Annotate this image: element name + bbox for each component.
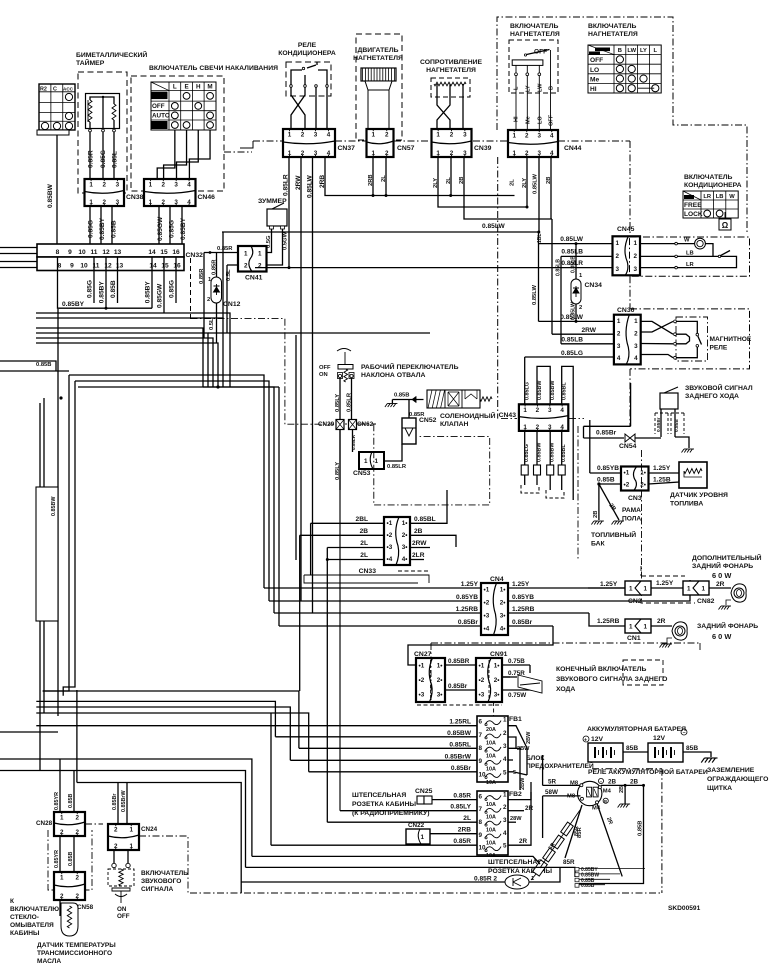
svg-text:2•: 2• — [437, 677, 443, 684]
svg-text:ДАТЧИК ТЕМПЕРАТУРЫ: ДАТЧИК ТЕМПЕРАТУРЫ — [37, 942, 116, 949]
solenoid valve symbol — [427, 390, 480, 408]
svg-text:КОНЕЧНЫЙ ВКЛЮЧАТЕЛЬ: КОНЕЧНЫЙ ВКЛЮЧАТЕЛЬ — [556, 664, 647, 673]
wires out of CN33 — [410, 490, 447, 523]
wires out of battery relay right — [601, 784, 644, 786]
svg-text:2•: 2• — [500, 600, 506, 607]
wire 2R to rear lamp — [651, 625, 672, 627]
wire 0.85LW long — [222, 231, 539, 233]
svg-text:•2: •2 — [479, 677, 485, 684]
svg-text:5: 5 — [513, 770, 516, 776]
svg-text:1•: 1• — [437, 662, 443, 669]
svg-text:•1: •1 — [624, 470, 630, 477]
wires CN46 down to CN32 — [158, 206, 160, 244]
svg-text:0.85R: 0.85R — [199, 268, 205, 284]
wires battery relay down — [565, 805, 582, 858]
dash-dot line through CN29/CN62 — [345, 423, 347, 425]
frame ground wires — [598, 484, 600, 520]
svg-text:ШТЕПСЕЛЬНАЯ: ШТЕПСЕЛЬНАЯ — [352, 792, 406, 799]
battery relay terminals — [580, 784, 583, 787]
svg-text:0.85BY: 0.85BY — [99, 281, 106, 304]
svg-text:2L: 2L — [510, 179, 516, 186]
svg-text:3: 3 — [503, 817, 507, 824]
svg-text:ДОПОЛНИТЕЛЬНЫЙ: ДОПОЛНИТЕЛЬНЫЙ — [692, 553, 762, 562]
fuel tank dash-dot boundary — [641, 450, 643, 600]
wires glow table to CN46 — [157, 130, 175, 181]
svg-text:12: 12 — [102, 249, 110, 256]
blower resistor dashed box — [431, 78, 470, 97]
svg-text:0.85B: 0.85B — [68, 794, 74, 808]
svg-text:CN54: CN54 — [619, 443, 637, 450]
svg-text:2B: 2B — [608, 779, 617, 786]
connector CN36 — [614, 315, 641, 365]
svg-text:3: 3 — [616, 266, 620, 273]
svg-text:M: M — [207, 84, 212, 91]
connector CN38 — [85, 179, 125, 206]
svg-text:4: 4 — [550, 133, 554, 140]
svg-text:12V: 12V — [591, 736, 604, 743]
svg-text:РЕЛЕ: РЕЛЕ — [298, 42, 317, 49]
svg-text:1: 1 — [616, 240, 620, 247]
svg-text:2: 2 — [525, 133, 529, 140]
svg-text:CN43: CN43 — [499, 412, 517, 419]
svg-text:LW: LW — [538, 83, 544, 92]
svg-text:0.85YR: 0.85YR — [54, 850, 60, 868]
svg-text:0.85B: 0.85B — [638, 821, 644, 836]
svg-text:M4: M4 — [603, 789, 612, 795]
svg-text:2: 2 — [503, 730, 507, 737]
svg-text:3•: 3• — [437, 692, 443, 699]
svg-text:0.85R: 0.85R — [453, 793, 471, 800]
AC switch table — [683, 191, 738, 218]
svg-text:0.5GW: 0.5GW — [283, 231, 289, 250]
timer resistor — [112, 104, 116, 120]
timer heater coil — [88, 100, 92, 122]
svg-text:CN37: CN37 — [338, 145, 356, 152]
svg-text:L: L — [514, 86, 520, 90]
svg-text:1: 1 — [374, 458, 378, 465]
svg-text:2R: 2R — [519, 838, 528, 845]
wire bundle upper left — [36, 313, 230, 387]
svg-text:ВКЛЮЧАТЕЛЬ: ВКЛЮЧАТЕЛЬ — [588, 23, 637, 30]
svg-text:58W: 58W — [545, 789, 558, 796]
dash-dot segments at connector level — [253, 140, 283, 142]
svg-text:6: 6 — [479, 719, 483, 726]
svg-text:0.85LR: 0.85LR — [387, 464, 407, 470]
svg-text:1: 1 — [436, 132, 440, 139]
dash-dot box around CN53/CN52/solenoid — [374, 424, 490, 505]
svg-text:ХОДА: ХОДА — [556, 686, 575, 693]
svg-text:2RW: 2RW — [412, 540, 427, 547]
svg-text:ON: ON — [117, 906, 127, 913]
svg-text:3: 3 — [617, 343, 621, 350]
svg-text:10A: 10A — [486, 802, 496, 808]
connector CN57 — [367, 129, 394, 157]
wire 0.85LR into CN45 — [255, 267, 614, 269]
wires CN32 to left edge — [0, 247, 37, 249]
svg-text:B: B — [618, 48, 622, 54]
svg-text:4: 4 — [634, 355, 638, 362]
svg-text:10A: 10A — [486, 828, 496, 834]
svg-text:2: 2 — [634, 330, 638, 337]
connector CN37 — [283, 129, 335, 157]
svg-text:БИМЕТАЛЛИЧЕСКИЙ: БИМЕТАЛЛИЧЕСКИЙ — [76, 50, 147, 59]
svg-text:0.85LW: 0.85LW — [560, 236, 583, 243]
svg-text:2LY: 2LY — [522, 178, 528, 188]
svg-text:2B: 2B — [546, 177, 552, 184]
svg-text:2: 2 — [301, 132, 305, 139]
svg-text:2: 2 — [207, 297, 210, 303]
svg-text:2BW: 2BW — [520, 777, 526, 790]
fuse block FB1 — [477, 716, 508, 782]
AC relay contacts — [291, 70, 302, 85]
svg-text:8: 8 — [479, 819, 483, 826]
blower motor symbol — [361, 68, 396, 81]
svg-text:Me: Me — [526, 116, 532, 124]
svg-text:0.85BW: 0.85BW — [550, 380, 556, 400]
wire 0.85Br between CN27 CN91 — [445, 689, 476, 691]
svg-text:CN58: CN58 — [77, 904, 94, 911]
svg-text:1: 1 — [503, 717, 507, 724]
svg-text:CN28: CN28 — [36, 820, 53, 827]
svg-text:2L: 2L — [360, 540, 368, 547]
svg-text:2: 2 — [503, 804, 507, 811]
svg-text:2: 2 — [102, 182, 106, 189]
svg-text:CN25: CN25 — [415, 788, 433, 795]
svg-text:85R: 85R — [577, 827, 583, 838]
svg-text:2B: 2B — [630, 779, 639, 786]
battery 1 — [583, 736, 589, 742]
blower switch table — [588, 45, 661, 93]
svg-text:ЗВУКОВОГО СИГНАЛА ЗАДНЕГО: ЗВУКОВОГО СИГНАЛА ЗАДНЕГО — [556, 676, 667, 683]
svg-text:FB2: FB2 — [509, 791, 522, 798]
svg-text:0.85BL: 0.85BL — [562, 382, 568, 400]
svg-text:5: 5 — [503, 843, 507, 850]
svg-text:ВКЛЮЧАТЕЛЬ: ВКЛЮЧАТЕЛЬ — [684, 174, 733, 181]
wires below CN37 — [288, 157, 290, 268]
svg-text:1: 1 — [701, 586, 705, 593]
svg-text:•1: •1 — [419, 662, 425, 669]
svg-text:0.85R: 0.85R — [217, 246, 233, 252]
dash-dot stubs at CN43 — [501, 418, 517, 420]
connector CN3 — [621, 467, 649, 491]
svg-text:•4: •4 — [387, 556, 393, 563]
svg-text:ЗВУКОВОЙ СИГНАЛ: ЗВУКОВОЙ СИГНАЛ — [685, 383, 753, 392]
svg-text:3•: 3• — [500, 613, 506, 620]
svg-text:0.85LW: 0.85LW — [532, 284, 538, 305]
svg-text:1.25Y: 1.25Y — [600, 581, 618, 588]
svg-text:2L: 2L — [446, 177, 452, 184]
svg-text:НАГНЕТАТЕЛЯ: НАГНЕТАТЕЛЯ — [426, 67, 476, 74]
svg-text:2B: 2B — [619, 786, 625, 793]
svg-text:11: 11 — [91, 249, 98, 256]
svg-text:CN4: CN4 — [490, 576, 504, 583]
horn switch — [113, 850, 115, 863]
svg-text:0.85LW: 0.85LW — [560, 314, 583, 321]
magnetic relay switch — [677, 321, 698, 333]
svg-text:CN38: CN38 — [126, 194, 144, 201]
reverse buzzer switch symbol — [502, 676, 517, 678]
svg-text:2: 2 — [616, 253, 620, 260]
svg-text:1: 1 — [643, 586, 647, 593]
svg-text:1: 1 — [503, 791, 507, 798]
svg-text:ТРАНСМИССИОННОГО: ТРАНСМИССИОННОГО — [37, 950, 112, 957]
svg-text:CN62: CN62 — [357, 421, 374, 428]
svg-text:0.85LG: 0.85LG — [525, 382, 531, 400]
svg-text:ТАЙМЕР: ТАЙМЕР — [76, 58, 105, 67]
svg-text:2BW: 2BW — [526, 731, 532, 744]
svg-text:1•: 1• — [494, 662, 500, 669]
magnetic relay cross wires — [641, 321, 673, 334]
svg-text:1.25B: 1.25B — [653, 477, 671, 484]
svg-text:1: 1 — [617, 318, 621, 325]
svg-text:0.85R: 0.85R — [453, 838, 471, 845]
wire 0.85YB into CN3 — [590, 472, 621, 474]
svg-text:CN33: CN33 — [359, 568, 377, 575]
dash-dot boundary at CN27 level — [431, 642, 700, 644]
svg-text:10A: 10A — [486, 767, 496, 773]
svg-text:OFF: OFF — [590, 57, 603, 64]
svg-text:20A: 20A — [486, 727, 496, 733]
svg-text:0.85Br: 0.85Br — [458, 619, 479, 626]
svg-text:3•: 3• — [494, 692, 500, 699]
wire 0.85LR below CN62 — [352, 430, 354, 453]
svg-text:CN22: CN22 — [408, 822, 425, 829]
wire 0.85LW into CN36 — [539, 320, 615, 322]
glow switch dashed box — [131, 76, 224, 191]
svg-text:2: 2 — [617, 330, 621, 337]
svg-text:0.85LY: 0.85LY — [335, 394, 341, 412]
svg-text:0.85G: 0.85G — [100, 150, 107, 168]
wires below CN57 — [372, 157, 374, 196]
svg-text:2: 2 — [75, 815, 79, 822]
svg-text:•1: •1 — [484, 587, 490, 594]
big wiring loop rectangle — [43, 375, 69, 691]
svg-text:ЗАЗЕМЛЕНИЕ: ЗАЗЕМЛЕНИЕ — [707, 767, 755, 774]
fuse block FB2 — [477, 791, 508, 855]
svg-text:0.85BW: 0.85BW — [47, 183, 54, 208]
svg-text:2R: 2R — [525, 805, 534, 812]
svg-text:CN1: CN1 — [627, 635, 641, 642]
svg-text:LR: LR — [703, 194, 712, 200]
svg-text:СОПРОТИВЛЕНИЕ: СОПРОТИВЛЕНИЕ — [420, 59, 483, 66]
svg-text:0.85LB: 0.85LB — [561, 249, 583, 256]
dashed terminal caps below CN43 — [521, 485, 539, 493]
svg-text:ПРЕДОХРАНИТЕЛЕЙ: ПРЕДОХРАНИТЕЛЕЙ — [526, 761, 594, 770]
ground below 0.85B — [385, 404, 398, 408]
svg-text:+: + — [584, 738, 587, 744]
reverse horn body — [660, 393, 678, 409]
connector CN44 — [508, 130, 558, 157]
svg-text:B: B — [604, 799, 607, 804]
svg-text:5R: 5R — [548, 779, 557, 786]
svg-text:2B: 2B — [593, 511, 599, 518]
svg-text:КОНДИЦИОНЕРА: КОНДИЦИОНЕРА — [278, 50, 336, 57]
dashed routing near CN2 — [641, 575, 685, 577]
svg-text:SKD00591: SKD00591 — [668, 905, 701, 912]
svg-text:2R: 2R — [716, 581, 725, 588]
svg-text:1.25RL: 1.25RL — [449, 719, 471, 726]
svg-text:0.85LR: 0.85LR — [347, 392, 353, 412]
wires out of CN4 — [508, 587, 625, 589]
connector CN32 — [37, 244, 184, 257]
svg-text:CN24: CN24 — [141, 826, 158, 833]
svg-text:0.85G: 0.85G — [169, 220, 176, 238]
svg-text:0.85YB: 0.85YB — [456, 594, 478, 601]
connector CN39 — [432, 129, 472, 157]
svg-text:ЗАДНИЙ ФОНАРЬ: ЗАДНИЙ ФОНАРЬ — [697, 621, 758, 630]
svg-text:БАК: БАК — [591, 541, 606, 548]
svg-text:−: − — [683, 730, 686, 736]
svg-text:3: 3 — [634, 343, 638, 350]
dash-dot from CN24 — [139, 836, 662, 893]
svg-text:5: 5 — [503, 769, 507, 776]
svg-text:(К РАДИОПРИЕМНИКУ): (К РАДИОПРИЕМНИКУ) — [352, 810, 430, 817]
svg-text:•1: •1 — [479, 662, 485, 669]
svg-text:2RW: 2RW — [295, 175, 302, 190]
svg-text:CN82: CN82 — [697, 598, 715, 605]
magnetic relay inner dash-dot box — [676, 317, 708, 361]
wires CN38 down to CN32 — [89, 206, 91, 244]
svg-text:0.85LW: 0.85LW — [482, 223, 505, 230]
blower resistor cross wires — [437, 97, 450, 129]
svg-text:1•: 1• — [500, 587, 506, 594]
svg-text:0.75B: 0.75B — [508, 658, 525, 665]
svg-text:LY: LY — [640, 48, 647, 54]
AC relay cross wires — [291, 87, 305, 129]
svg-text:0.85B: 0.85B — [674, 419, 680, 432]
svg-text:СОЛЕНОИДНЫЙ: СОЛЕНОИДНЫЙ — [440, 411, 496, 420]
svg-text:3: 3 — [174, 182, 178, 189]
svg-text:85R: 85R — [563, 859, 575, 866]
svg-text:0.5L: 0.5L — [209, 318, 215, 330]
svg-text:2•: 2• — [494, 677, 500, 684]
svg-text:1.25Y: 1.25Y — [656, 580, 674, 587]
svg-text:15: 15 — [161, 263, 169, 270]
wire 85B to ground — [683, 752, 711, 757]
svg-text:CN39: CN39 — [474, 145, 492, 152]
svg-text:15: 15 — [160, 249, 168, 256]
svg-text:9: 9 — [68, 249, 72, 256]
svg-text:1: 1 — [629, 586, 633, 593]
svg-text:•3: •3 — [479, 692, 485, 699]
svg-text:0.85BW: 0.85BW — [550, 442, 556, 462]
connector CN54 bowtie — [584, 437, 625, 439]
connector CN82 — [683, 581, 709, 595]
buzzer body — [267, 209, 287, 226]
svg-text:0.85Br: 0.85Br — [448, 683, 468, 690]
svg-text:12V: 12V — [653, 735, 666, 742]
svg-text:•3: •3 — [419, 692, 425, 699]
wire 0.85R vertical from CN41 area — [203, 253, 205, 339]
svg-text:1: 1 — [60, 875, 64, 882]
svg-text:3: 3 — [548, 407, 552, 414]
svg-text:0.85BrW: 0.85BrW — [121, 790, 127, 812]
svg-text:0.85LB: 0.85LB — [561, 337, 583, 344]
svg-text:CN32: CN32 — [186, 252, 204, 259]
svg-text:•2: •2 — [387, 532, 393, 539]
svg-text:85B: 85B — [626, 745, 638, 752]
svg-text:0.85BY: 0.85BY — [99, 217, 106, 240]
svg-text:2•: 2• — [402, 532, 408, 539]
svg-text:4: 4 — [503, 756, 507, 763]
svg-text:0.85B: 0.85B — [597, 477, 615, 484]
svg-text:10A: 10A — [486, 740, 496, 746]
svg-text:НАГНЕТАТЕЛЯ: НАГНЕТАТЕЛЯ — [588, 31, 638, 38]
svg-text:ВКЛЮЧАТЕЛЬ СВЕЧИ НАКАЛИВАНИЯ: ВКЛЮЧАТЕЛЬ СВЕЧИ НАКАЛИВАНИЯ — [149, 65, 278, 72]
svg-text:W: W — [729, 194, 735, 200]
svg-text:0.85B: 0.85B — [36, 362, 51, 368]
svg-text:ВКЛЮЧАТЕЛЬ: ВКЛЮЧАТЕЛЬ — [510, 23, 559, 30]
svg-text:0.85Br: 0.85Br — [112, 793, 118, 810]
wire 0.85LY below CN29 — [339, 430, 341, 491]
wires below CN43 to terminals — [524, 431, 526, 465]
svg-text:6 0 W: 6 0 W — [712, 571, 731, 580]
svg-text:0.85BW: 0.85BW — [51, 496, 57, 516]
blower switch dashed box — [509, 40, 558, 93]
svg-text:РЕЛЕ: РЕЛЕ — [710, 345, 728, 352]
svg-text:•4: •4 — [484, 626, 490, 633]
svg-text:•3: •3 — [484, 613, 490, 620]
svg-text:9: 9 — [70, 263, 74, 270]
ohm symbol — [719, 219, 731, 230]
svg-text:0.85B: 0.85B — [68, 852, 74, 866]
svg-text:1.25RB: 1.25RB — [597, 618, 620, 625]
svg-text:10A: 10A — [486, 754, 496, 760]
svg-text:1: 1 — [512, 133, 516, 140]
svg-text:ON: ON — [319, 372, 328, 378]
wires out of CN91 — [502, 664, 530, 666]
svg-text:2L: 2L — [463, 815, 471, 822]
svg-text:ОГРАЖДАЮЩЕГО: ОГРАЖДАЮЩЕГО — [707, 776, 768, 783]
svg-text:1: 1 — [288, 132, 292, 139]
svg-text:−: − — [600, 779, 603, 784]
battery ground — [701, 758, 717, 763]
svg-text:МАСЛА: МАСЛА — [37, 958, 61, 965]
svg-text:2: 2 — [579, 305, 582, 311]
svg-text:OFF: OFF — [152, 103, 165, 110]
magnetic relay coil loop — [677, 334, 690, 344]
dash-dot box around CN28 — [48, 830, 92, 890]
wires down to CN28 CN24 — [59, 759, 61, 812]
wire bundle lower left — [43, 691, 299, 748]
connector CN2 — [588, 587, 625, 589]
svg-text:ДВИГАТЕЛЬ: ДВИГАТЕЛЬ — [358, 47, 399, 54]
diode connector CN34 — [575, 244, 577, 279]
wire 85B between batteries — [623, 751, 648, 753]
wires CN28 down — [59, 836, 61, 872]
svg-text:3: 3 — [633, 266, 637, 273]
svg-text:•2: •2 — [624, 482, 630, 489]
svg-text:0.85L: 0.85L — [112, 151, 119, 168]
svg-text:0.85BL: 0.85BL — [414, 516, 436, 523]
buzzer wires — [267, 229, 272, 253]
bimetallic timer dashed box — [78, 72, 127, 193]
connector CN46 — [144, 179, 196, 206]
wire 0.85B into CN3 — [599, 483, 621, 485]
svg-text:Ω: Ω — [722, 221, 729, 230]
battery relay — [578, 781, 602, 805]
svg-text:ЗАДНИЙ ФОНАРЬ: ЗАДНИЙ ФОНАРЬ — [692, 561, 753, 570]
connector CN58 — [54, 872, 85, 900]
svg-text:1: 1 — [129, 827, 133, 834]
bridge wires above CN43 — [537, 366, 550, 406]
svg-text:0.85BY: 0.85BY — [145, 281, 152, 304]
svg-text:0.85LW: 0.85LW — [307, 175, 314, 198]
svg-text:0.85LR: 0.85LR — [283, 174, 290, 196]
svg-text:РАМА: РАМА — [622, 507, 641, 514]
svg-text:6: 6 — [479, 793, 483, 800]
svg-text:H: H — [196, 84, 201, 91]
